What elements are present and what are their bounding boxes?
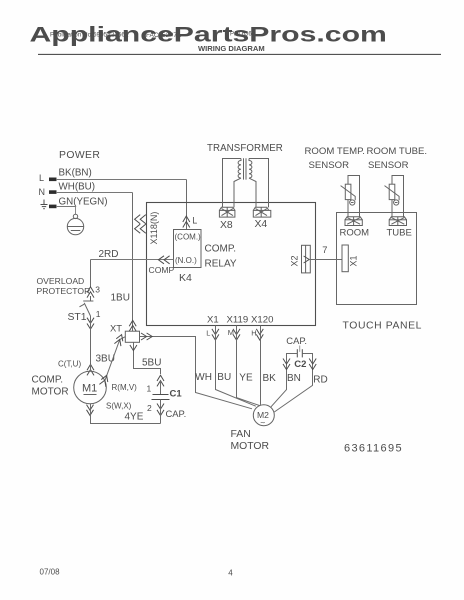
- wire ST1 to compressor motor: [90, 316, 92, 364]
- wire X2 to X1: [310, 259, 342, 261]
- svg-text:2RD: 2RD: [99, 249, 119, 260]
- svg-text:PROTECTOR: PROTECTOR: [37, 286, 91, 296]
- earth ground electrode symbol: [67, 214, 83, 235]
- svg-text:WH(BU): WH(BU): [59, 182, 95, 193]
- svg-text:5BU: 5BU: [142, 358, 161, 369]
- node N terminal pin: [39, 187, 57, 197]
- svg-text:X119: X119: [227, 314, 249, 325]
- svg-text:TUBE: TUBE: [387, 227, 412, 238]
- svg-text:ST1: ST1: [68, 312, 87, 323]
- wire XT bottom to C1 via 5BU: [134, 343, 161, 375]
- svg-text:RD: RD: [313, 375, 327, 386]
- connector chevrons on R diagonal near XT: [114, 333, 124, 346]
- overload protector ST1 contact: [80, 296, 94, 316]
- label TOUCH PANEL: [343, 320, 423, 331]
- arrow in X2: [304, 256, 310, 263]
- svg-text:1: 1: [96, 309, 101, 319]
- label C(T,U): [58, 359, 81, 368]
- svg-text:CAP.: CAP.: [286, 335, 307, 346]
- label ROOM TUBE. SENSOR: [367, 146, 428, 171]
- svg-text:(COM.): (COM.): [175, 232, 202, 241]
- svg-text:(N.O.): (N.O.): [175, 256, 197, 265]
- label CAP. at C2: [286, 335, 307, 346]
- label X8: [220, 220, 233, 231]
- svg-text:SENSOR: SENSOR: [309, 160, 350, 171]
- connector COMP chevrons: [158, 256, 169, 264]
- svg-text:TRANSFORMER: TRANSFORMER: [207, 143, 283, 154]
- wire C2 left to BN: [287, 354, 298, 371]
- label GN(YEGN): [59, 196, 108, 207]
- label M at board bottom: [228, 328, 234, 337]
- label ROOM TEMP. SENSOR: [305, 146, 365, 171]
- label ROOM: [340, 227, 370, 238]
- svg-text:TOUCH PANEL: TOUCH PANEL: [343, 320, 423, 331]
- wire 2RD horizontal: [91, 259, 174, 261]
- arrow H output: [256, 329, 263, 340]
- label X118(N): [149, 212, 159, 245]
- svg-text:X2: X2: [290, 255, 300, 266]
- label L at board bottom: [206, 328, 210, 337]
- svg-text:K4: K4: [179, 272, 192, 284]
- wire 2RD vertical to overload protector: [90, 260, 92, 288]
- label K4: [179, 272, 192, 284]
- arrow L into relay: [183, 216, 190, 228]
- footer page number 4: [228, 569, 233, 578]
- svg-text:L: L: [39, 173, 44, 183]
- wire BN to fan motor: [271, 370, 287, 407]
- label (COM.): [175, 232, 202, 241]
- svg-text:X8: X8: [220, 220, 233, 231]
- header model number text: [146, 32, 182, 39]
- connector ROOM: [345, 217, 362, 226]
- connector TUBE: [389, 217, 406, 226]
- svg-text:POWER: POWER: [59, 150, 100, 161]
- svg-text:BK(BN): BK(BN): [59, 168, 92, 179]
- svg-text:FAN: FAN: [231, 429, 251, 440]
- wire C1 bottom plate down: [160, 400, 162, 424]
- svg-text:WIRING DIAGRAM: WIRING DIAGRAM: [198, 44, 265, 53]
- label 1BU: [111, 293, 130, 304]
- wire RD to fan motor: [274, 370, 312, 412]
- arrow into M1 C terminal: [87, 364, 94, 375]
- svg-text:SENSOR: SENSOR: [368, 160, 409, 171]
- footer date 07/08: [40, 567, 61, 576]
- svg-text:COMP: COMP: [149, 265, 175, 275]
- svg-text:YE: YE: [239, 372, 253, 383]
- svg-text:GN(YEGN): GN(YEGN): [59, 196, 108, 207]
- svg-text:3: 3: [95, 284, 100, 294]
- svg-text:CAP.: CAP.: [166, 408, 187, 419]
- svg-text:FAC052P7A: FAC052P7A: [146, 32, 182, 39]
- svg-text:X1: X1: [348, 255, 358, 266]
- transformer core: [244, 158, 247, 179]
- svg-text:4YE: 4YE: [125, 412, 144, 423]
- arrow M output: [233, 329, 240, 340]
- label L at relay: [192, 216, 197, 226]
- svg-text:7: 7: [322, 244, 327, 255]
- label OVERLOAD PROTECTOR: [37, 276, 91, 296]
- label 5BU: [142, 358, 161, 369]
- label 1 at C1: [147, 383, 152, 393]
- svg-text:S(W,X): S(W,X): [106, 401, 132, 410]
- wire GN drop to earth: [75, 207, 77, 215]
- connector X4: [253, 207, 270, 217]
- label COMP. MOTOR: [32, 374, 69, 397]
- label BK: [263, 373, 277, 384]
- label X1 X119 X120 on board: [207, 314, 273, 325]
- svg-text:07/08: 07/08: [40, 567, 61, 576]
- arrow RD: [309, 359, 316, 370]
- label YE: [239, 372, 253, 383]
- label WH(BU): [59, 182, 95, 193]
- part number 63611695: [344, 442, 403, 454]
- svg-text:BU: BU: [217, 372, 231, 383]
- label BN: [287, 373, 301, 384]
- label CAP. at C1: [166, 408, 187, 419]
- room tube sensor thermistor: [385, 184, 400, 205]
- svg-text:MOTOR: MOTOR: [32, 387, 69, 398]
- room tube sensor RT2 body: [392, 176, 404, 218]
- svg-text:C(T,U): C(T,U): [58, 359, 81, 368]
- label X2: [290, 255, 300, 266]
- header rule line: [38, 53, 441, 55]
- label 2 at C1: [147, 403, 152, 413]
- svg-text:X1: X1: [207, 314, 219, 325]
- svg-text:3BU: 3BU: [96, 353, 115, 364]
- terminal 3 arrow of ST1: [87, 287, 94, 298]
- svg-text:OVERLOAD: OVERLOAD: [37, 276, 85, 286]
- arrow at C1 terminal 2: [157, 404, 164, 416]
- relay K4 box: [174, 230, 202, 268]
- label XT: [110, 322, 122, 333]
- arrow L output: [212, 329, 219, 340]
- header publication number text: [50, 32, 129, 39]
- wire BK from board H to fan motor: [260, 326, 262, 405]
- label TRANSFORMER: [207, 143, 283, 154]
- label 7: [322, 244, 327, 255]
- svg-text:4: 4: [228, 569, 233, 578]
- svg-text:L: L: [206, 328, 210, 337]
- wire N vertical 1BU down to XT: [132, 193, 134, 332]
- arrow at M1 S terminal: [87, 405, 94, 416]
- label 3: [95, 284, 100, 294]
- fan motor M2: [253, 405, 274, 428]
- svg-text:63611695: 63611695: [344, 442, 403, 454]
- label RD: [313, 375, 327, 386]
- watermark AppliancePartsPros.com: [30, 22, 387, 47]
- wire C2 right to RD: [302, 354, 312, 371]
- wire N WH horizontal: [56, 192, 133, 194]
- label X4: [255, 219, 268, 230]
- label ST1: [68, 312, 87, 323]
- transformer T1 primary winding: [223, 159, 242, 208]
- control board box: [147, 203, 316, 326]
- connector X2 on board: [302, 245, 311, 273]
- arrow into C1 terminal 1: [157, 375, 164, 386]
- label H at board bottom: [251, 328, 256, 337]
- connector chevrons on XT right: [141, 333, 152, 340]
- wire arrow to M1 top: [90, 364, 92, 371]
- label C1: [170, 388, 183, 399]
- svg-text:C2: C2: [294, 359, 306, 370]
- svg-text:WH: WH: [195, 372, 212, 383]
- label 1: [96, 309, 101, 319]
- label C2: [294, 359, 306, 370]
- svg-text:XT: XT: [110, 322, 122, 333]
- label X1 rotated: [348, 255, 358, 266]
- wire YE from board M to fan motor: [237, 326, 260, 406]
- label POWER: [59, 150, 100, 161]
- svg-text:BN: BN: [287, 373, 301, 384]
- header part number text: [230, 32, 256, 38]
- svg-text:ROOM TUBE.: ROOM TUBE.: [367, 146, 428, 157]
- label WH: [195, 372, 212, 383]
- wire BU from board L to fan motor: [216, 326, 256, 407]
- wire L BK horizontal: [56, 179, 187, 181]
- label BK(BN): [59, 168, 92, 179]
- room temp sensor RT1 body: [348, 176, 360, 218]
- label (N.O.): [175, 256, 197, 265]
- terminal 1 arrow of ST1: [87, 318, 94, 329]
- arrow 1BU into XT top: [129, 320, 136, 331]
- svg-text:ROOM TEMP.: ROOM TEMP.: [305, 146, 365, 157]
- touch panel box: [337, 213, 417, 305]
- connector X118(N) chevrons row 2: [135, 224, 146, 233]
- svg-text:X4: X4: [255, 219, 268, 230]
- svg-text:1BU: 1BU: [111, 293, 130, 304]
- connector X1 on touch panel: [342, 245, 348, 272]
- wire 4YE from M1 S to C1: [91, 404, 161, 424]
- label COMP. RELAY: [205, 244, 237, 270]
- label FAN MOTOR: [231, 429, 270, 452]
- connector chevrons on R diagonal near motor: [99, 374, 109, 387]
- ground terminal pin: [49, 205, 57, 209]
- svg-text:2: 2: [147, 403, 152, 413]
- wire WH from XT to fan motor: [140, 337, 253, 409]
- svg-text:~: ~: [260, 418, 265, 428]
- svg-text:X120: X120: [251, 314, 273, 325]
- svg-text:COMP.: COMP.: [205, 244, 237, 255]
- wire into C1 top plate: [160, 380, 162, 395]
- ground symbol at plug: [41, 200, 48, 209]
- svg-text:L: L: [192, 216, 197, 226]
- label TUBE: [387, 227, 412, 238]
- terminal block XT: [125, 331, 139, 342]
- svg-text:BK: BK: [263, 373, 277, 384]
- svg-text:1: 1: [147, 383, 152, 393]
- wire M1 R terminal diagonal to XT: [105, 337, 126, 381]
- svg-text:COMP.: COMP.: [32, 374, 64, 385]
- svg-text:P/N 6361: P/N 6361: [230, 32, 256, 38]
- leader line CAP to C2: [299, 346, 301, 352]
- svg-text:X118(N): X118(N): [149, 212, 159, 245]
- svg-text:H: H: [251, 328, 256, 337]
- svg-text:C1: C1: [170, 388, 183, 399]
- transformer T1 secondary winding: [249, 159, 269, 208]
- compressor motor M1: [74, 371, 107, 404]
- room temp sensor thermistor: [341, 184, 356, 205]
- arrow BN: [283, 359, 290, 370]
- node L terminal pin: [39, 173, 57, 183]
- svg-text:R(M,V): R(M,V): [112, 383, 138, 392]
- capacitor C2 plates: [297, 349, 302, 357]
- arrow on XT bottom wire: [130, 345, 137, 351]
- label 2RD: [99, 249, 119, 260]
- label S(W,X): [106, 401, 132, 410]
- svg-text:M1: M1: [82, 383, 97, 395]
- svg-text:RELAY: RELAY: [205, 259, 237, 270]
- svg-text:MOTOR: MOTOR: [231, 441, 270, 452]
- label 4YE: [125, 412, 144, 423]
- connector X8: [219, 207, 235, 217]
- wire L vertical to relay COM: [186, 180, 188, 230]
- svg-text:N: N: [39, 187, 46, 197]
- label 3BU: [96, 353, 115, 364]
- svg-text:ROOM: ROOM: [340, 227, 370, 238]
- label R(M,V): [112, 383, 138, 392]
- wire GN horizontal: [56, 206, 76, 208]
- label BU: [217, 372, 231, 383]
- svg-text:Publication No 5995421561: Publication No 5995421561: [50, 32, 129, 39]
- connector X118(N) chevrons row 1: [135, 215, 146, 224]
- label COMP at relay: [149, 265, 175, 275]
- title WIRING DIAGRAM: [198, 44, 265, 53]
- capacitor C1 plates: [152, 395, 170, 400]
